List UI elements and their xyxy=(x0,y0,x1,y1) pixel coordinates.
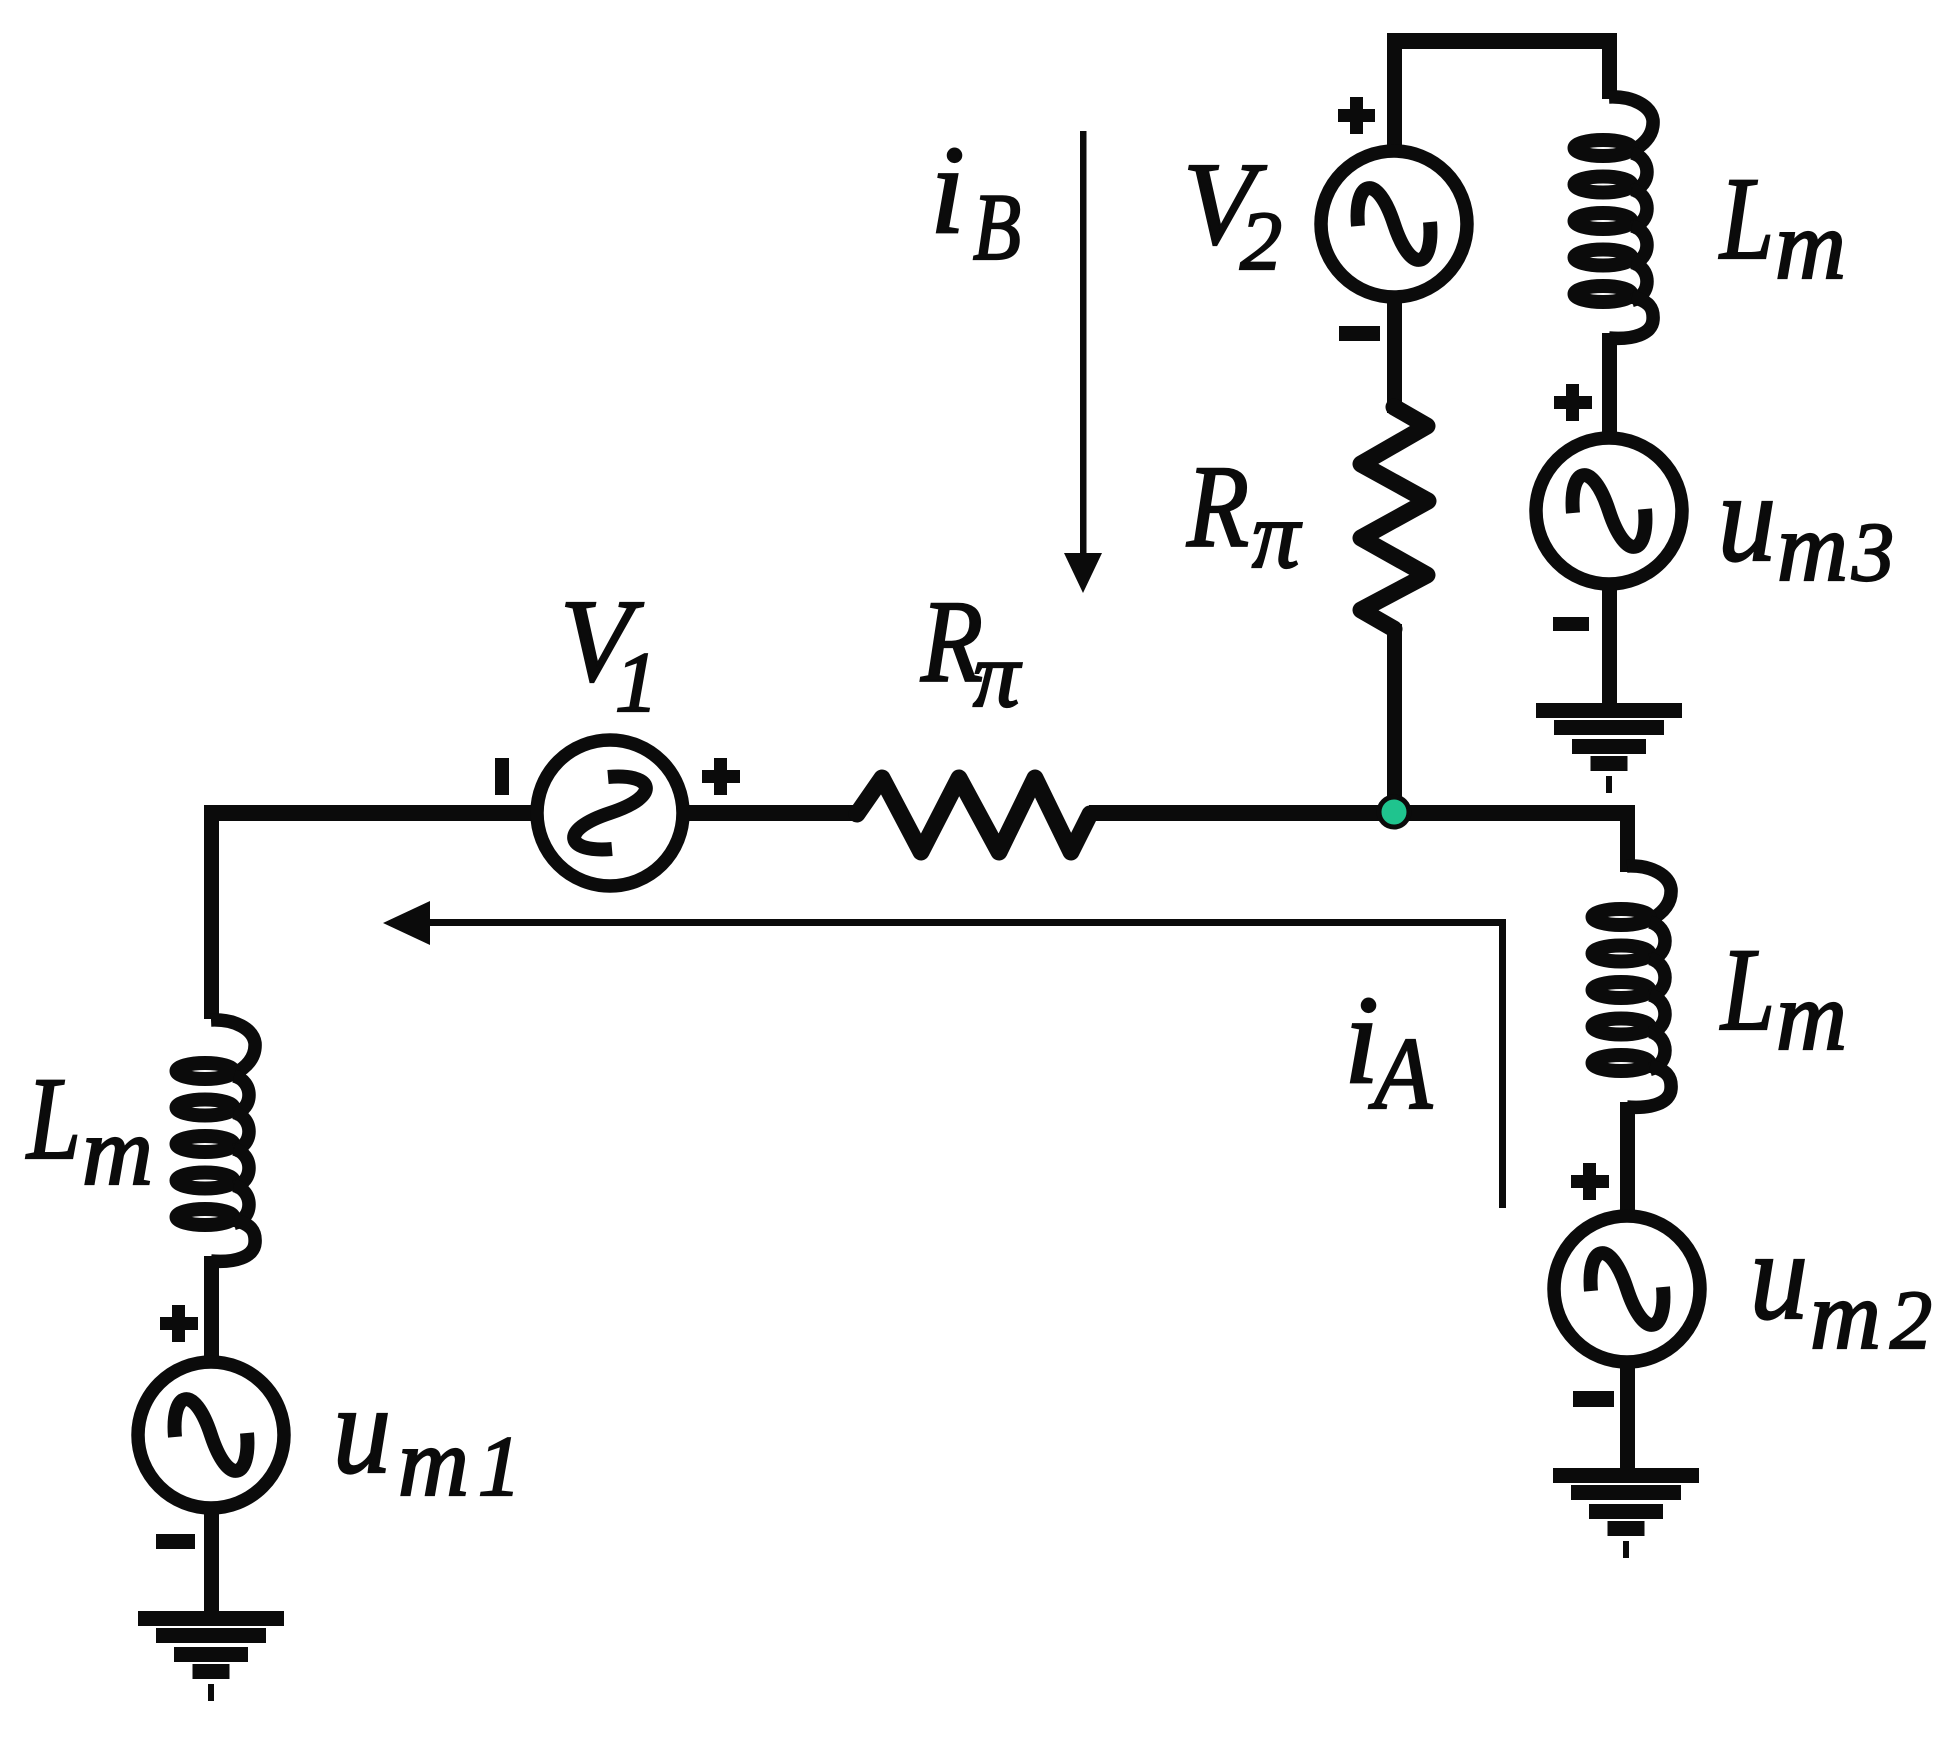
wire coil to u_m1 xyxy=(204,1256,219,1356)
svg-text:2: 2 xyxy=(1240,195,1282,288)
svg-text:B: B xyxy=(973,174,1021,280)
svg-text:1: 1 xyxy=(478,1418,521,1514)
AC source u_m3 xyxy=(1536,438,1682,584)
wire coil to u_m2 xyxy=(1620,1102,1635,1212)
wire resistor to junction horizontal xyxy=(1089,805,1394,821)
main horizontal wire left segment xyxy=(204,805,534,821)
svg-text:u: u xyxy=(1750,1207,1808,1346)
svg-text:i: i xyxy=(930,121,965,260)
svg-text:L: L xyxy=(25,1053,81,1184)
plus sign of u_m2 xyxy=(1571,1163,1609,1200)
svg-text:m: m xyxy=(398,1409,469,1516)
ground u_m1 xyxy=(138,1611,284,1701)
svg-text:2: 2 xyxy=(1890,1274,1932,1367)
minus sign of V2 xyxy=(1339,326,1380,341)
resistor R_pi vertical xyxy=(1361,407,1428,629)
inductor Lm left xyxy=(177,1020,256,1261)
svg-text:m: m xyxy=(1810,1262,1881,1369)
svg-text:π: π xyxy=(973,624,1022,727)
inductor Lm lower-right xyxy=(1593,866,1672,1107)
arrow i_A xyxy=(383,901,1506,1208)
plus sign of V2 xyxy=(1338,97,1375,134)
svg-text:m: m xyxy=(1776,963,1847,1070)
ground u_m3 xyxy=(1536,703,1682,793)
wire V1 to resistor xyxy=(688,805,860,821)
AC source u_m1 xyxy=(138,1362,284,1508)
svg-text:m: m xyxy=(82,1098,153,1205)
minus sign of V1 (vertical bar) xyxy=(495,758,509,795)
AC source u_m2 xyxy=(1554,1216,1700,1362)
resistor R_pi horizontal xyxy=(857,778,1090,852)
wire V2 bottom vertical xyxy=(1387,298,1402,413)
wire top-right vertical to coil xyxy=(1602,33,1617,99)
wire u_m3 to ground xyxy=(1602,585,1617,705)
svg-text:u: u xyxy=(1718,449,1776,588)
node junction (green dot) xyxy=(1379,797,1409,827)
plus sign of V1 xyxy=(702,758,740,795)
svg-text:A: A xyxy=(1368,1017,1433,1131)
wire V2 top vertical xyxy=(1387,33,1402,151)
wire coil to u_m3 xyxy=(1602,333,1617,435)
wire left corner vertical xyxy=(204,805,219,1019)
minus sign of u_m2 xyxy=(1573,1391,1614,1407)
AC source V1 (rotated sine) xyxy=(537,740,683,886)
svg-text:π: π xyxy=(1252,482,1302,588)
wire resistor to junction xyxy=(1387,624,1402,814)
svg-text:u: u xyxy=(333,1361,391,1500)
svg-text:L: L xyxy=(1719,924,1775,1055)
minus sign of u_m3 xyxy=(1553,617,1589,631)
arrow i_B xyxy=(1064,131,1102,593)
svg-text:R: R xyxy=(1186,441,1249,572)
plus sign of u_m1 xyxy=(160,1305,198,1342)
ground u_m2 xyxy=(1553,1468,1699,1558)
svg-text:m: m xyxy=(1777,494,1848,601)
svg-text:3: 3 xyxy=(1851,506,1894,599)
inductor Lm top-right xyxy=(1575,97,1654,338)
wire junction to right corner xyxy=(1394,805,1635,821)
wire top loop horizontal xyxy=(1387,33,1617,49)
plus sign of u_m3 xyxy=(1554,384,1592,421)
wire u_m1 to ground xyxy=(204,1509,219,1612)
minus sign of u_m1 xyxy=(156,1534,195,1549)
svg-text:L: L xyxy=(1718,153,1774,284)
svg-text:1: 1 xyxy=(615,634,658,730)
AC source V2 xyxy=(1321,151,1467,297)
wire u_m2 to ground xyxy=(1620,1363,1635,1470)
wire right corner vertical xyxy=(1620,805,1635,872)
svg-text:m: m xyxy=(1775,192,1846,299)
